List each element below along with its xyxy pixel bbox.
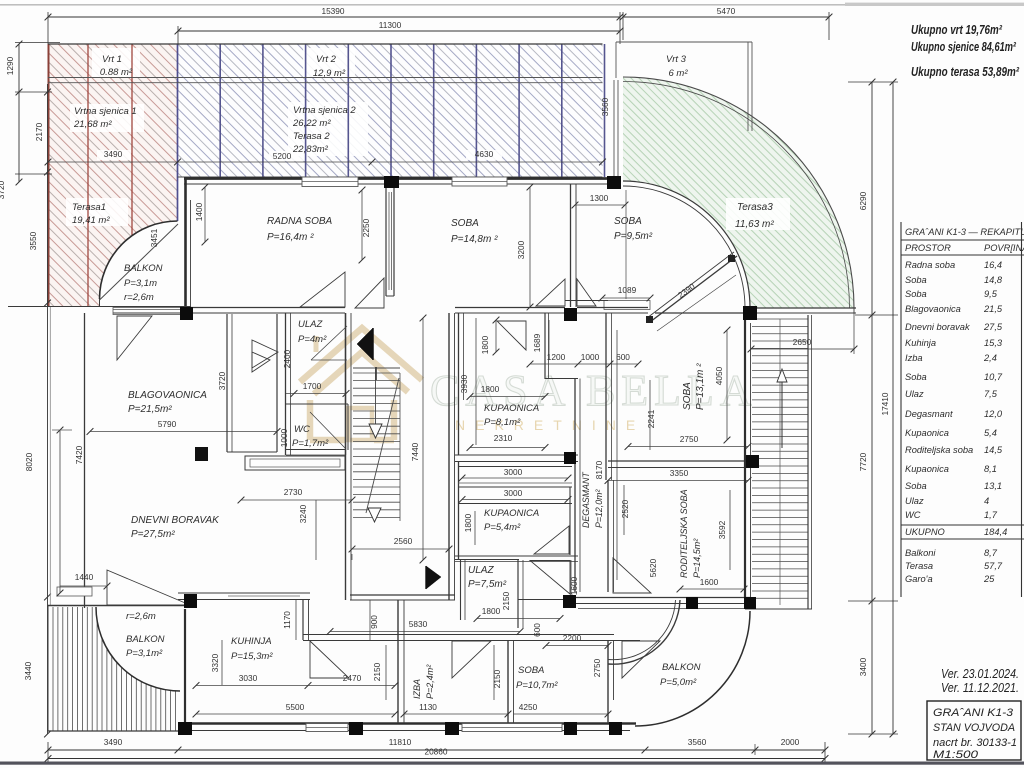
svg-text:3350: 3350 — [670, 468, 689, 478]
svg-text:17410: 17410 — [880, 392, 890, 415]
svg-text:Izba: Izba — [905, 353, 923, 363]
svg-text:DNEVNI BORAVAK: DNEVNI BORAVAK — [131, 515, 220, 526]
svg-text:1440: 1440 — [75, 572, 94, 582]
svg-text:8,1: 8,1 — [984, 464, 997, 474]
svg-text:7420: 7420 — [74, 445, 84, 464]
svg-text:Ukupno sjenice 84,61m²: Ukupno sjenice 84,61m² — [911, 40, 1017, 54]
svg-text:4630: 4630 — [475, 149, 494, 159]
svg-text:3440: 3440 — [23, 661, 33, 680]
svg-text:19,41 m²: 19,41 m² — [72, 215, 110, 226]
svg-text:WC: WC — [905, 510, 921, 520]
svg-text:P=5,0m²: P=5,0m² — [660, 677, 697, 688]
svg-text:1290: 1290 — [5, 56, 15, 75]
svg-text:SOBA: SOBA — [614, 216, 642, 227]
svg-text:1300: 1300 — [590, 193, 609, 203]
svg-text:1689: 1689 — [532, 333, 542, 352]
svg-text:3490: 3490 — [104, 737, 123, 747]
svg-text:Roditeljska soba: Roditeljska soba — [905, 445, 973, 455]
svg-text:2310: 2310 — [494, 433, 513, 443]
svg-text:2400: 2400 — [282, 349, 292, 368]
svg-text:UKUPNO: UKUPNO — [905, 527, 945, 537]
svg-text:0.88 m²: 0.88 m² — [100, 67, 133, 78]
svg-text:21,5: 21,5 — [983, 304, 1003, 314]
svg-text:Balkoni: Balkoni — [905, 548, 936, 558]
svg-text:P=2,4m²: P=2,4m² — [425, 664, 435, 699]
svg-text:Ver. 23.01.2024.: Ver. 23.01.2024. — [941, 667, 1019, 681]
svg-text:Ukupno terasa 53,89m²: Ukupno terasa 53,89m² — [911, 65, 1020, 79]
svg-text:BALKON: BALKON — [124, 263, 163, 274]
svg-text:5500: 5500 — [286, 702, 305, 712]
svg-text:1130: 1130 — [419, 702, 437, 712]
svg-text:Soba: Soba — [905, 275, 927, 285]
svg-text:3400: 3400 — [858, 657, 868, 676]
svg-text:3000: 3000 — [504, 488, 523, 498]
svg-text:SOBA: SOBA — [451, 218, 479, 229]
svg-text:2000: 2000 — [781, 737, 800, 747]
svg-text:3560: 3560 — [688, 737, 707, 747]
svg-text:ULAZ: ULAZ — [468, 565, 494, 576]
svg-text:900: 900 — [369, 615, 379, 629]
svg-text:RADNA SOBA: RADNA SOBA — [267, 216, 333, 227]
svg-text:GRAˆANI K1-3: GRAˆANI K1-3 — [933, 707, 1014, 719]
svg-text:1800: 1800 — [463, 513, 473, 532]
svg-text:1,7: 1,7 — [984, 510, 998, 520]
svg-text:r=2,6m: r=2,6m — [126, 611, 156, 622]
svg-text:3930: 3930 — [459, 374, 469, 393]
svg-text:1089: 1089 — [618, 285, 637, 295]
svg-text:1170: 1170 — [282, 611, 292, 629]
svg-text:2750: 2750 — [680, 434, 699, 444]
svg-text:1600: 1600 — [569, 576, 579, 595]
svg-text:2520: 2520 — [620, 499, 630, 518]
svg-text:3000: 3000 — [504, 467, 523, 477]
svg-text:2750: 2750 — [592, 658, 602, 677]
svg-text:12,0: 12,0 — [984, 409, 1003, 419]
svg-text:6290: 6290 — [858, 191, 868, 210]
svg-text:2650: 2650 — [793, 337, 812, 347]
svg-text:2150: 2150 — [372, 662, 382, 681]
svg-text:3592: 3592 — [717, 520, 727, 539]
svg-text:15,3: 15,3 — [984, 338, 1003, 348]
svg-text:6 m²: 6 m² — [669, 68, 689, 79]
svg-text:3451: 3451 — [149, 228, 159, 247]
svg-text:3550: 3550 — [28, 231, 38, 250]
svg-text:4: 4 — [984, 496, 989, 506]
svg-text:Garo'a: Garo'a — [905, 574, 933, 584]
svg-text:16,4: 16,4 — [984, 260, 1002, 270]
svg-text:Kuhinja: Kuhinja — [905, 338, 936, 348]
svg-text:Kupaonica: Kupaonica — [905, 464, 949, 474]
svg-text:1000: 1000 — [279, 428, 289, 447]
svg-text:DEGASMANT: DEGASMANT — [581, 472, 591, 528]
svg-text:11810: 11810 — [389, 737, 412, 747]
svg-text:8170: 8170 — [594, 460, 604, 479]
svg-text:2150: 2150 — [492, 669, 502, 688]
svg-text:WC: WC — [294, 424, 310, 435]
svg-text:P=15,3m²: P=15,3m² — [231, 651, 273, 662]
svg-text:1400: 1400 — [194, 202, 204, 221]
svg-text:BLAGOVAONICA: BLAGOVAONICA — [128, 390, 207, 401]
svg-text:Terasa1: Terasa1 — [72, 202, 106, 213]
svg-text:14,5: 14,5 — [984, 445, 1003, 455]
svg-text:21,68 m²: 21,68 m² — [73, 119, 112, 130]
svg-text:1800: 1800 — [481, 384, 500, 394]
svg-text:57,7: 57,7 — [984, 561, 1003, 571]
svg-text:Radna soba: Radna soba — [905, 260, 955, 270]
svg-text:Vrtna sjenica 2: Vrtna sjenica 2 — [293, 105, 356, 116]
svg-text:3720: 3720 — [0, 180, 6, 199]
svg-text:POVR[INA: POVR[INA — [984, 243, 1024, 253]
svg-text:Ver. 11.12.2021.: Ver. 11.12.2021. — [941, 681, 1019, 695]
svg-text:BALKON: BALKON — [662, 662, 701, 673]
svg-text:P=5,4m²: P=5,4m² — [484, 522, 521, 533]
svg-text:2730: 2730 — [284, 487, 303, 497]
svg-text:26,22 m²: 26,22 m² — [292, 118, 331, 129]
svg-text:5,4: 5,4 — [984, 428, 997, 438]
svg-text:1600: 1600 — [700, 577, 719, 587]
svg-text:22,83m²: 22,83m² — [292, 144, 329, 155]
svg-text:10,7: 10,7 — [984, 372, 1003, 382]
svg-text:Terasa: Terasa — [905, 561, 933, 571]
svg-text:2200: 2200 — [563, 633, 582, 643]
svg-text:Vrt 1: Vrt 1 — [102, 54, 122, 65]
svg-text:13,1: 13,1 — [984, 481, 1002, 491]
svg-text:Blagovaonica: Blagovaonica — [905, 304, 961, 314]
svg-text:Soba: Soba — [905, 372, 927, 382]
svg-text:Dnevni boravak: Dnevni boravak — [905, 322, 971, 332]
svg-text:nacrt br. 30133-1: nacrt br. 30133-1 — [933, 737, 1017, 749]
svg-text:P=9,5m²: P=9,5m² — [614, 231, 653, 242]
svg-text:STAN VOJVODA: STAN VOJVODA — [933, 722, 1015, 734]
svg-text:Ulaz: Ulaz — [905, 389, 924, 399]
svg-text:Vrt 2: Vrt 2 — [316, 54, 337, 65]
svg-text:KUPAONICA: KUPAONICA — [484, 403, 539, 414]
svg-text:3030: 3030 — [239, 673, 258, 683]
svg-text:3240: 3240 — [298, 504, 308, 523]
svg-text:5470: 5470 — [717, 6, 736, 16]
svg-text:20860: 20860 — [424, 747, 447, 757]
svg-text:7720: 7720 — [858, 452, 868, 471]
svg-text:11,63 m²: 11,63 m² — [735, 219, 774, 230]
svg-text:P=16,4m ²: P=16,4m ² — [267, 232, 314, 243]
svg-text:Vrt 3: Vrt 3 — [666, 54, 687, 65]
svg-text:3490: 3490 — [104, 149, 123, 159]
svg-text:P=3,1m²: P=3,1m² — [126, 648, 163, 659]
svg-text:184,4: 184,4 — [984, 527, 1007, 537]
svg-text:SOBA: SOBA — [518, 665, 544, 676]
svg-text:11300: 11300 — [379, 20, 402, 30]
svg-text:CASA BELLA: CASA BELLA — [430, 366, 758, 415]
svg-text:5830: 5830 — [409, 619, 428, 629]
svg-text:P=1,7m²: P=1,7m² — [292, 438, 329, 449]
svg-text:8,7: 8,7 — [984, 548, 998, 558]
svg-text:3720: 3720 — [217, 371, 227, 390]
svg-text:RODITELJSKA SOBA: RODITELJSKA SOBA — [679, 489, 689, 578]
svg-text:600: 600 — [532, 623, 542, 637]
svg-text:BALKON: BALKON — [126, 634, 165, 645]
svg-text:8020: 8020 — [24, 452, 34, 471]
svg-text:r=2,6m: r=2,6m — [124, 292, 154, 303]
svg-text:2150: 2150 — [501, 591, 511, 610]
svg-text:P=12,0m²: P=12,0m² — [594, 489, 604, 528]
svg-text:4050: 4050 — [714, 366, 724, 385]
svg-text:1200: 1200 — [547, 352, 566, 362]
svg-text:Soba: Soba — [905, 481, 927, 491]
svg-text:2560: 2560 — [394, 536, 413, 546]
svg-text:1800: 1800 — [480, 335, 490, 354]
svg-text:KUPAONICA: KUPAONICA — [484, 508, 539, 519]
svg-text:12,9 m²: 12,9 m² — [313, 68, 346, 79]
svg-text:Kupaonica: Kupaonica — [905, 428, 949, 438]
svg-text:KUHINJA: KUHINJA — [231, 636, 272, 647]
svg-text:2250: 2250 — [361, 218, 371, 237]
svg-text:GRAˆANI K1-3 — REKAPITULA: GRAˆANI K1-3 — REKAPITULA — [905, 227, 1024, 237]
svg-text:P=8,1m²: P=8,1m² — [484, 417, 521, 428]
svg-text:M1:500: M1:500 — [933, 749, 979, 761]
svg-text:Ukupno vrt 19,76m²: Ukupno vrt 19,76m² — [911, 23, 1003, 37]
svg-text:P=13,1m ²: P=13,1m ² — [695, 363, 706, 410]
svg-text:P=14,5m²: P=14,5m² — [692, 538, 702, 578]
svg-text:2,4: 2,4 — [983, 353, 997, 363]
svg-text:3320: 3320 — [210, 653, 220, 672]
svg-text:15390: 15390 — [321, 6, 344, 16]
svg-text:ULAZ: ULAZ — [298, 319, 323, 330]
svg-text:P=7,5m²: P=7,5m² — [468, 579, 507, 590]
svg-text:2170: 2170 — [34, 122, 44, 141]
svg-text:P=27,5m²: P=27,5m² — [131, 529, 175, 540]
svg-text:Soba: Soba — [905, 289, 927, 299]
svg-text:1700: 1700 — [303, 381, 322, 391]
svg-text:5790: 5790 — [158, 419, 177, 429]
svg-text:9,5: 9,5 — [984, 289, 998, 299]
svg-text:3200: 3200 — [516, 240, 526, 259]
svg-text:SOBA: SOBA — [682, 382, 693, 410]
svg-text:2241: 2241 — [646, 409, 656, 428]
svg-text:1800: 1800 — [482, 606, 501, 616]
svg-text:5620: 5620 — [648, 558, 658, 577]
svg-text:P=21,5m²: P=21,5m² — [128, 404, 172, 415]
svg-text:P=4m²: P=4m² — [298, 334, 327, 345]
svg-text:Ulaz: Ulaz — [905, 496, 924, 506]
svg-text:IZBA: IZBA — [412, 679, 422, 699]
svg-text:600: 600 — [616, 352, 630, 362]
svg-text:Degasmant: Degasmant — [905, 409, 953, 419]
svg-text:14,8: 14,8 — [984, 275, 1003, 285]
svg-text:P=3,1m: P=3,1m — [124, 278, 157, 289]
svg-text:4250: 4250 — [519, 702, 538, 712]
svg-text:27,5: 27,5 — [983, 322, 1003, 332]
svg-text:Vrtna sjenica 1: Vrtna sjenica 1 — [74, 106, 137, 117]
svg-text:25: 25 — [983, 574, 995, 584]
svg-text:P=10,7m²: P=10,7m² — [516, 680, 558, 691]
svg-text:7440: 7440 — [410, 442, 420, 461]
svg-text:Terasa3: Terasa3 — [737, 202, 773, 213]
svg-text:PROSTOR: PROSTOR — [905, 243, 951, 253]
svg-text:7,5: 7,5 — [984, 389, 998, 399]
svg-text:1000: 1000 — [581, 352, 600, 362]
svg-text:3560: 3560 — [600, 97, 610, 116]
svg-text:Terasa 2: Terasa 2 — [293, 131, 330, 142]
svg-text:P=14,8m ²: P=14,8m ² — [451, 234, 498, 245]
svg-text:5200: 5200 — [273, 151, 292, 161]
